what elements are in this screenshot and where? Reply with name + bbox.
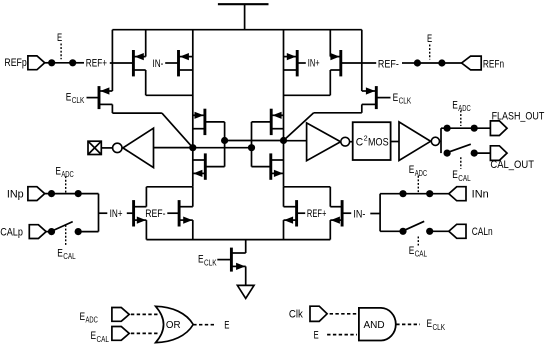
svg-text:IN-: IN- (353, 208, 365, 220)
svg-text:E: E (427, 318, 433, 330)
svg-text:REF+: REF+ (86, 58, 107, 70)
svg-text:REFp: REFp (4, 57, 26, 69)
svg-text:E: E (198, 254, 204, 266)
svg-text:E: E (91, 330, 97, 342)
svg-text:E: E (409, 245, 415, 257)
svg-text:E: E (452, 169, 458, 181)
svg-text:CLK: CLK (399, 97, 412, 106)
svg-text:CAL: CAL (458, 174, 471, 183)
svg-text:REFn: REFn (483, 58, 504, 70)
svg-text:CAL: CAL (415, 250, 428, 259)
svg-text:ADC: ADC (415, 169, 428, 178)
svg-text:FLASH_OUT: FLASH_OUT (492, 110, 545, 122)
svg-text:REF+: REF+ (307, 208, 327, 220)
svg-text:2: 2 (364, 134, 368, 143)
svg-text:MOS: MOS (368, 136, 389, 148)
svg-text:IN+: IN+ (110, 208, 123, 220)
svg-text:OR: OR (166, 320, 181, 331)
svg-text:IN-: IN- (153, 58, 164, 70)
svg-text:INp: INp (7, 189, 24, 201)
svg-text:CALn: CALn (472, 226, 493, 238)
svg-text:E: E (224, 320, 229, 332)
svg-text:CALp: CALp (0, 227, 23, 239)
svg-text:ADC: ADC (86, 316, 99, 325)
svg-text:E: E (452, 99, 458, 111)
svg-text:C: C (356, 136, 364, 148)
svg-text:INn: INn (472, 189, 489, 201)
svg-text:E: E (66, 91, 72, 103)
svg-text:E: E (57, 32, 62, 44)
svg-text:E: E (80, 311, 86, 323)
svg-text:E: E (409, 164, 415, 176)
svg-text:CAL_OUT: CAL_OUT (490, 159, 534, 171)
svg-text:CAL: CAL (97, 335, 110, 344)
svg-text:E: E (393, 92, 399, 104)
svg-text:E: E (57, 247, 63, 259)
svg-text:CAL: CAL (63, 252, 76, 261)
svg-text:E: E (314, 330, 319, 342)
svg-text:Clk: Clk (289, 309, 304, 321)
svg-text:E: E (55, 165, 61, 177)
svg-text:AND: AND (363, 320, 384, 331)
svg-text:CLK: CLK (204, 258, 217, 267)
svg-text:REF-: REF- (378, 58, 399, 70)
svg-text:IN+: IN+ (308, 58, 320, 70)
svg-text:CLK: CLK (72, 96, 85, 105)
svg-text:REF-: REF- (145, 208, 166, 220)
svg-text:E: E (427, 33, 432, 45)
svg-text:CLK: CLK (433, 323, 446, 332)
svg-text:ADC: ADC (61, 170, 74, 179)
